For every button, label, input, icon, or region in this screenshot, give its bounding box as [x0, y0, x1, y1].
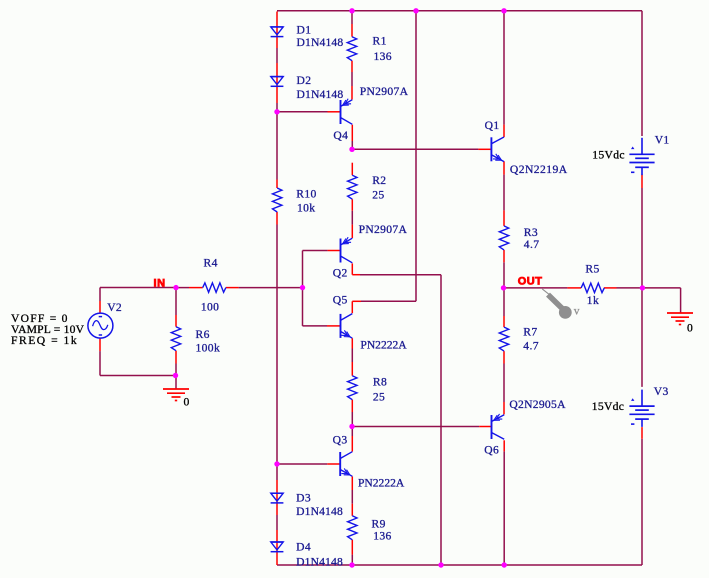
battery V3	[629, 390, 654, 427]
pin stubs Q2	[328, 225, 360, 275]
svg-text:R3: R3	[524, 226, 538, 239]
diode D4	[271, 542, 284, 552]
pin stubs R1	[351, 24, 353, 72]
wire R6 column segments	[175, 288, 177, 315]
wire output column segments	[503, 11, 505, 125]
svg-text:R2: R2	[372, 174, 386, 187]
pin stubs D4	[276, 530, 278, 565]
svg-text:D1N4148: D1N4148	[296, 505, 343, 518]
svg-text:D4: D4	[296, 541, 311, 554]
wire bottom -15V rail	[277, 564, 642, 566]
svg-text:4.7: 4.7	[523, 339, 539, 352]
pin stubs V3	[641, 427, 643, 439]
svg-text:R1: R1	[373, 35, 387, 48]
svg-text:1k: 1k	[587, 294, 599, 307]
svg-text:R6: R6	[196, 328, 210, 341]
svg-text:FREQ = 1k: FREQ = 1k	[11, 334, 77, 347]
pin stubs R4	[189, 287, 239, 289]
svg-text:0: 0	[184, 396, 190, 409]
svg-text:0: 0	[687, 322, 693, 335]
svg-text:15Vdc: 15Vdc	[592, 149, 625, 162]
wire right rail to ground	[642, 287, 680, 289]
wire Q1 base from node	[352, 148, 478, 150]
pin stubs D3	[276, 480, 278, 515]
pin stubs Q1	[478, 125, 504, 175]
svg-text:IN: IN	[154, 278, 166, 290]
resistor R3	[499, 226, 508, 250]
svg-text:D2: D2	[297, 74, 312, 87]
pin stubs R5	[567, 287, 616, 289]
wire right supply rail segments	[641, 11, 643, 136]
svg-text:Q4: Q4	[333, 129, 348, 142]
svg-text:Q6: Q6	[484, 444, 499, 457]
svg-text:10k: 10k	[297, 201, 315, 214]
diode D3	[271, 493, 284, 503]
wire center column segments	[351, 11, 353, 24]
resistor R8	[348, 376, 357, 400]
wire OUT node to R5 and right rail	[504, 287, 568, 289]
svg-text:PN2907A: PN2907A	[359, 223, 408, 236]
resistor R9	[348, 516, 357, 540]
svg-text:OUT: OUT	[518, 275, 543, 287]
svg-text:V1: V1	[655, 133, 670, 146]
svg-text:PN2222A: PN2222A	[360, 339, 407, 352]
transistor Q4	[341, 99, 353, 125]
pin stubs R7	[503, 316, 505, 364]
svg-text:4.7: 4.7	[524, 238, 540, 251]
diode D2	[271, 77, 284, 87]
wire V2 top to IN	[100, 287, 176, 289]
svg-text:Q1: Q1	[485, 119, 500, 132]
pin stubs Q6	[479, 402, 504, 451]
svg-text:Q3: Q3	[333, 434, 348, 447]
pin stubs D1	[276, 12, 278, 49]
svg-text:25: 25	[373, 391, 385, 404]
svg-text:25: 25	[372, 188, 384, 201]
wire left bias column segments	[276, 48, 278, 63]
pin stubs V2	[99, 301, 101, 351]
transistor Q5	[341, 314, 353, 339]
svg-text:D1N4148: D1N4148	[297, 88, 344, 101]
svg-text:R10: R10	[296, 187, 316, 200]
svg-text:R8: R8	[373, 376, 387, 389]
diode D1	[271, 27, 284, 37]
svg-text:Q2N2219A: Q2N2219A	[510, 163, 568, 176]
resistor R5	[581, 283, 604, 292]
pin stubs D2	[276, 63, 278, 103]
svg-text:PN2907A: PN2907A	[360, 85, 409, 98]
svg-text:V2: V2	[107, 301, 122, 314]
wire V2 bottom to ground node	[99, 351, 101, 375]
wire top +15V rail	[277, 10, 642, 12]
resistor R2	[348, 175, 357, 199]
svg-text:D3: D3	[296, 491, 311, 504]
resistor R4	[203, 283, 226, 292]
resistor R10	[273, 188, 282, 212]
pin stubs R8	[351, 362, 353, 412]
resistor R1	[347, 37, 356, 61]
wire Q2-Q5 base bracket	[302, 251, 304, 326]
source V2	[88, 313, 113, 338]
svg-text:15Vdc: 15Vdc	[592, 400, 625, 413]
pin stubs Q3	[327, 436, 352, 490]
svg-text:R7: R7	[523, 326, 537, 339]
svg-text:100: 100	[201, 301, 219, 314]
pin stubs Q4	[328, 86, 353, 141]
svg-text:R4: R4	[204, 257, 218, 270]
pin stubs R9	[351, 504, 353, 555]
transistor Q2	[341, 237, 353, 263]
svg-text:136: 136	[374, 50, 392, 63]
wire Q2 collector to bottom rail	[440, 275, 442, 565]
resistor R7	[499, 327, 508, 351]
svg-text:D1: D1	[297, 24, 312, 37]
svg-text:Q5: Q5	[333, 293, 348, 306]
voltage probe marker	[542, 289, 580, 319]
pin stubs R6	[175, 315, 177, 364]
pin stubs R10	[276, 180, 278, 225]
ground 0 left	[163, 389, 189, 401]
wire Q3 collector to Q6 base	[352, 426, 479, 428]
svg-text:Q2N2905A: Q2N2905A	[509, 398, 566, 411]
pin stubs V1	[641, 175, 643, 189]
transistor Q1	[491, 137, 504, 162]
svg-text:PN2222A: PN2222A	[358, 477, 405, 490]
wire Q5 collector to top rail	[415, 11, 417, 302]
wire Q4 base	[277, 111, 328, 113]
resistor R6	[171, 327, 180, 351]
svg-text:136: 136	[373, 530, 391, 543]
svg-text:Q2: Q2	[333, 267, 348, 280]
wire Q3 base	[277, 463, 327, 465]
transistor Q3	[340, 452, 352, 477]
wire IN to bases	[176, 287, 189, 289]
svg-text:D1N4148: D1N4148	[297, 36, 344, 49]
svg-text:R5: R5	[585, 263, 599, 276]
svg-text:v: v	[574, 305, 580, 317]
battery V1	[629, 138, 654, 175]
svg-text:100k: 100k	[196, 342, 221, 355]
ground 0 right	[667, 313, 693, 325]
pin stubs R3	[503, 210, 505, 262]
pin stubs Q5	[327, 301, 361, 348]
transistor Q6	[492, 414, 505, 439]
pin stubs R2	[351, 163, 353, 211]
svg-text:D1N4148: D1N4148	[296, 556, 343, 569]
svg-text:V3: V3	[654, 385, 669, 398]
